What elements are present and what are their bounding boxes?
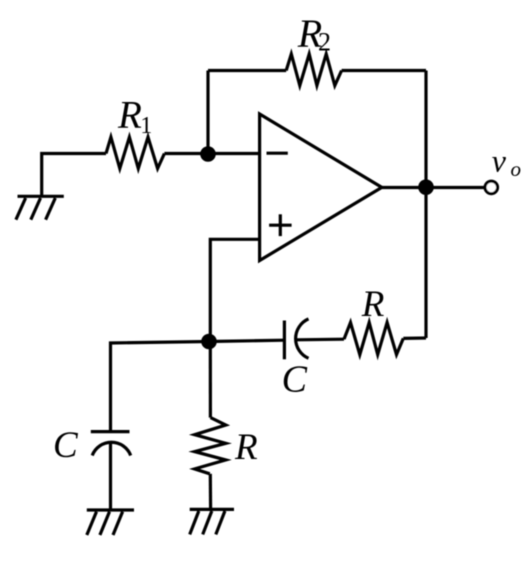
wire output to terminal bbox=[382, 186, 485, 189]
svg-text:C: C bbox=[53, 425, 79, 466]
resistor R4 bbox=[195, 418, 226, 474]
svg-text:o: o bbox=[511, 157, 522, 181]
output node junction dot bbox=[418, 179, 434, 195]
svg-text:R: R bbox=[361, 284, 385, 325]
wire bottom row left segment bbox=[111, 342, 210, 431]
wire node A up to feedback rail bbox=[206, 71, 209, 155]
op-amp U1 bbox=[260, 114, 382, 261]
wire R4 to ground bbox=[209, 474, 213, 510]
svg-text:1: 1 bbox=[140, 113, 152, 139]
wire node B down to R4 bbox=[209, 342, 212, 418]
capacitor C1 curved plate bbox=[92, 442, 131, 455]
svg-text:2: 2 bbox=[318, 28, 331, 57]
wire feedback rail left segment bbox=[208, 69, 286, 72]
op-amp minus sign bbox=[267, 152, 288, 155]
capacitor C2 curved plate bbox=[296, 319, 309, 358]
ground G3 bbox=[190, 509, 234, 534]
ground G1 bbox=[16, 196, 64, 219]
wire node B to capacitor C2 bbox=[209, 340, 284, 341]
terminal vo open circle bbox=[485, 181, 498, 194]
wire feedback rail right segment bbox=[342, 69, 426, 72]
svg-text:R: R bbox=[234, 427, 258, 468]
resistor R2 bbox=[286, 54, 341, 86]
resistor R3 bbox=[344, 323, 403, 355]
capacitor C2 left plate bbox=[283, 321, 286, 360]
wire ground stub to R1 bbox=[42, 154, 106, 197]
wire C2 to R3 bbox=[296, 338, 344, 342]
ground G2 bbox=[87, 510, 134, 535]
wire noninverting input lead bbox=[210, 239, 259, 341]
capacitor C1 top plate bbox=[91, 430, 130, 433]
op-amp plus sign bbox=[269, 214, 292, 236]
wire R1 to inverting input bbox=[164, 152, 259, 155]
svg-text:C: C bbox=[282, 359, 308, 401]
resistor R1 bbox=[106, 137, 164, 168]
svg-text:v: v bbox=[492, 143, 507, 179]
wire R3 to right rail bbox=[403, 336, 426, 340]
node B junction dot bbox=[201, 334, 217, 350]
wire right vertical rail bbox=[424, 71, 427, 339]
node A junction dot bbox=[200, 146, 216, 162]
wire C1 to ground bbox=[109, 442, 112, 510]
svg-text:R: R bbox=[117, 94, 142, 137]
